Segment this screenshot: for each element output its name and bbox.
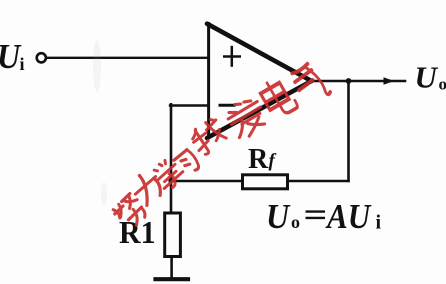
svg-text:i: i bbox=[20, 54, 25, 74]
svg-text:U: U bbox=[266, 198, 291, 236]
svg-text:U: U bbox=[0, 38, 22, 77]
svg-text:i: i bbox=[376, 212, 382, 234]
svg-text:AU: AU bbox=[325, 199, 372, 237]
svg-text:R: R bbox=[248, 144, 269, 175]
svg-text:U: U bbox=[415, 60, 439, 95]
svg-text:o: o bbox=[439, 75, 446, 94]
svg-text:o: o bbox=[291, 212, 300, 232]
